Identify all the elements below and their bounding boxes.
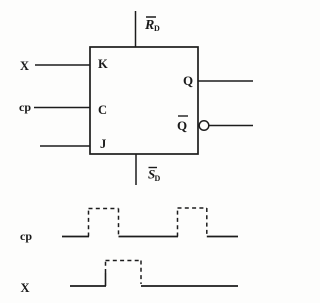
wire: cp waveform baseline segment 3	[207, 236, 238, 238]
wire: X pulse top (dashed)	[106, 260, 142, 262]
wire: cp waveform baseline segment 2	[119, 236, 179, 238]
wire: cp to C	[34, 107, 90, 109]
wire: cp pulse 1 top (dashed)	[89, 208, 119, 210]
wire: X to K	[35, 64, 90, 66]
label RD-bar	[144, 17, 160, 33]
wire: cp pulse 2 rising edge (dashed)	[177, 208, 179, 237]
wire: X pulse rising edge upper (dashed)	[105, 261, 107, 274]
svg-text:R: R	[144, 18, 154, 33]
wire: X waveform baseline segment 2	[141, 285, 238, 287]
wire: cp waveform baseline segment 1	[62, 236, 89, 238]
wire: J input	[40, 145, 90, 147]
label SD-bar	[148, 167, 161, 184]
flip-flop U1 box	[90, 47, 198, 154]
wire: RD input vertical	[135, 11, 137, 47]
wire: cp pulse 1 falling edge (dashed)	[118, 209, 120, 237]
wire: SD input vertical	[135, 154, 137, 185]
wire: Q-bar output	[209, 125, 253, 127]
wire: cp pulse 2 top (dashed)	[178, 207, 208, 209]
wire: X waveform baseline segment 1	[70, 285, 106, 287]
svg-text:D: D	[155, 174, 161, 183]
inverter bubble on Q-bar	[199, 121, 209, 131]
wire: X pulse falling edge (dashed)	[140, 261, 142, 285]
svg-text:Q: Q	[177, 118, 187, 133]
svg-text:D: D	[154, 24, 160, 33]
svg-text:Q: Q	[183, 73, 193, 88]
svg-text:X: X	[20, 59, 29, 73]
wire: cp pulse 1 rising edge (dashed)	[88, 209, 90, 237]
wire: cp pulse 2 falling edge (dashed)	[206, 208, 208, 234]
svg-text:J: J	[100, 137, 106, 151]
svg-text:C: C	[98, 103, 107, 117]
wire: Q output	[198, 80, 253, 82]
svg-text:X: X	[21, 281, 30, 295]
pin label Q-bar	[177, 116, 188, 133]
svg-text:cp: cp	[19, 100, 31, 114]
svg-text:cp: cp	[20, 229, 32, 243]
svg-text:K: K	[98, 57, 108, 71]
wire: X pulse rising edge lower (solid)	[105, 273, 107, 286]
